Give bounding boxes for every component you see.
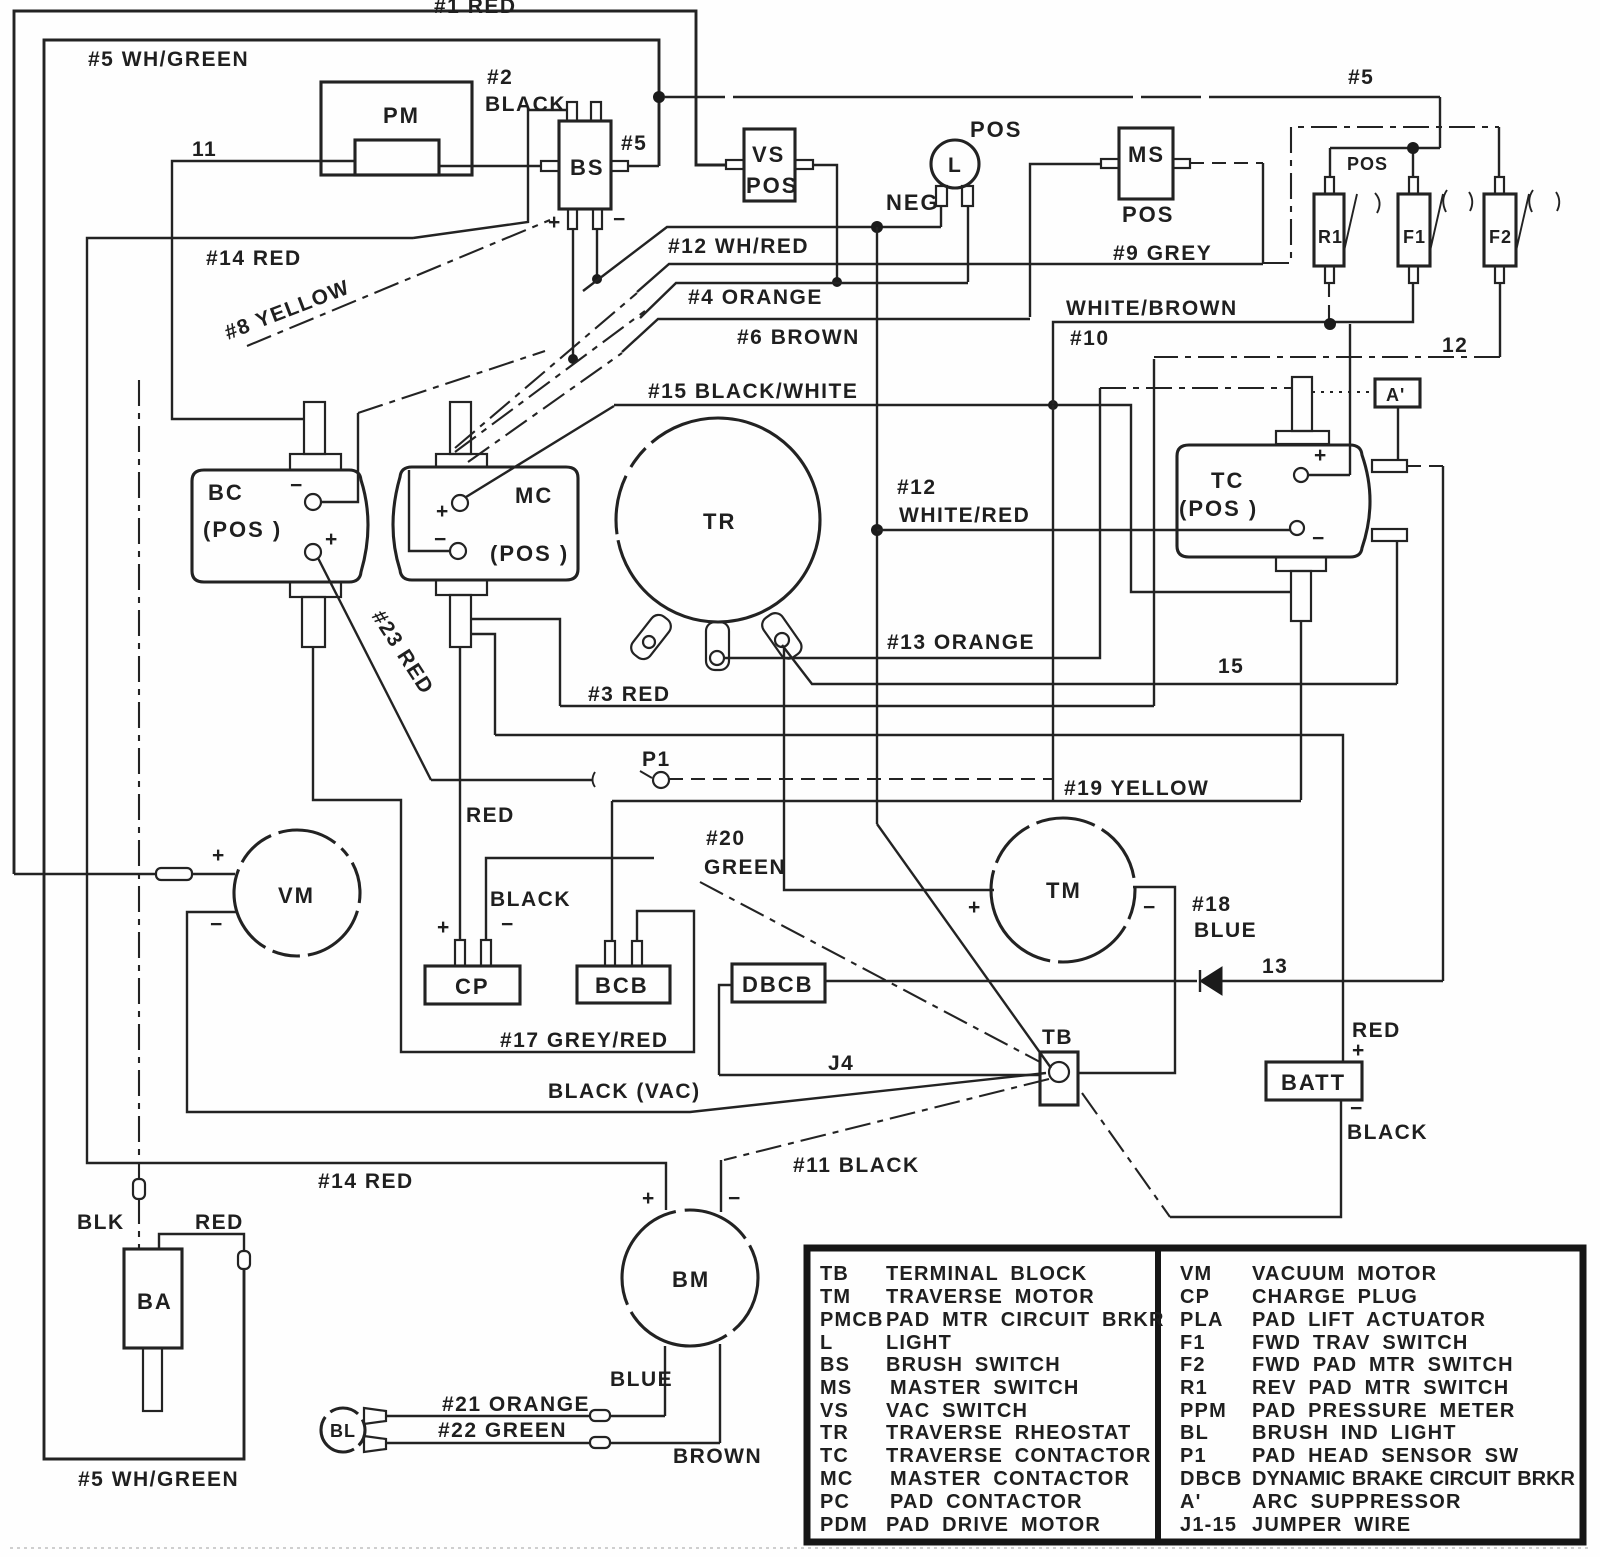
pin BA bottom stub [143, 1348, 162, 1411]
pin BS top-left [567, 102, 577, 121]
wire diode to right riser [1222, 980, 1443, 982]
wire TC right-top pin to long riser [1407, 465, 1443, 467]
svg-text:#18: #18 [1192, 893, 1232, 916]
svg-text:#13 ORANGE: #13 ORANGE [887, 631, 1035, 654]
lug TR right [759, 610, 805, 663]
svg-text:R1: R1 [1180, 1377, 1208, 1399]
pin BS right [611, 161, 628, 171]
switch F1 arc marks [1443, 190, 1472, 212]
wire #13 dash to TC top pin [1100, 387, 1292, 389]
wire MC out lower to batt line [471, 634, 495, 735]
svg-text:ARC SUPPRESSOR: ARC SUPPRESSOR [1252, 1491, 1462, 1513]
wire VS right to #4 orange [813, 165, 837, 282]
wire TM minus to TB [1078, 887, 1175, 1073]
svg-text:VM: VM [278, 883, 315, 908]
wire TC top pin dotted to A' [1312, 391, 1375, 393]
junction dot #15 at P1 riser [1048, 400, 1058, 410]
pin F1 top [1409, 177, 1418, 194]
wire #15 BLACK/WHITE line [614, 405, 1291, 592]
wire A' to TC right top pin [1397, 407, 1399, 460]
wire to BATT plus long line [495, 735, 1343, 1062]
lug BL top [364, 1408, 386, 1424]
junction dot node 12 top [871, 221, 883, 233]
svg-text:R1: R1 [1318, 227, 1343, 247]
svg-text:WHITE/BROWN: WHITE/BROWN [1066, 297, 1238, 320]
svg-text:(POS ): (POS ) [490, 541, 569, 566]
lug TR center [706, 622, 729, 670]
svg-text:J4: J4 [828, 1052, 854, 1075]
svg-text:VACUUM MOTOR: VACUUM MOTOR [1252, 1263, 1437, 1285]
lamp BL body [321, 1408, 365, 1452]
svg-text:TR: TR [703, 509, 736, 534]
wire TB dash to BATT minus elbow [1082, 1093, 1170, 1217]
contactor BC body [192, 470, 368, 582]
wire 15 line TR to TC [782, 645, 1397, 684]
legend left column [820, 1263, 1165, 1536]
pin L neg [936, 186, 947, 206]
wire PM to BS left pin [439, 165, 541, 167]
switch R1 body [1314, 194, 1344, 266]
wire #10 white/brown bracket [1053, 284, 1413, 404]
wire #1 RED outer border [14, 11, 726, 874]
wire #12 WHITE/RED vertical [876, 227, 878, 824]
svg-text:P1: P1 [642, 748, 671, 771]
svg-text:TB: TB [1042, 1026, 1073, 1049]
svg-text:(POS ): (POS ) [1179, 496, 1258, 521]
svg-text:TC: TC [820, 1445, 849, 1467]
svg-text:VM: VM [1180, 1263, 1212, 1285]
pin BS top-right [591, 102, 601, 121]
pin L pos [962, 186, 973, 206]
switch BS brush switch body [559, 121, 611, 209]
svg-text:#22 GREEN: #22 GREEN [438, 1419, 567, 1442]
svg-text:BL: BL [330, 1421, 356, 1441]
switch F2 blade [1516, 194, 1529, 251]
svg-text:−: − [1312, 527, 1326, 550]
svg-text:BLK: BLK [77, 1211, 125, 1234]
box PM inner terminal block [355, 140, 439, 175]
svg-text:L: L [948, 154, 962, 177]
terminal MC plus [452, 495, 468, 511]
switch P1 line from #23 [431, 779, 593, 781]
svg-text:POS: POS [1347, 154, 1388, 174]
wire BM blue down [664, 1346, 666, 1416]
switch VS vac switch body [744, 129, 795, 201]
svg-text:BLACK: BLACK [485, 93, 566, 116]
wire MC minus stub [409, 470, 450, 551]
svg-text:−: − [210, 913, 224, 936]
svg-text:+: + [642, 1187, 656, 1210]
svg-text:BA: BA [137, 1289, 173, 1314]
junction dot at F1 top [1407, 142, 1419, 154]
svg-text:#3 RED: #3 RED [588, 683, 671, 706]
wire #9 GREY line [637, 264, 1263, 292]
svg-text:BLACK: BLACK [1347, 1121, 1428, 1144]
svg-text:+: + [436, 500, 450, 523]
lug TR left [628, 611, 675, 662]
lamp L body [931, 140, 979, 188]
junction VS dot on #4 [832, 277, 842, 287]
wire MC out upper to #3 RED [471, 619, 560, 706]
svg-text:+: + [325, 528, 339, 551]
wire BCB right pin loop to BC bottom [313, 647, 694, 1052]
svg-text:#5: #5 [1348, 66, 1374, 89]
pin BS bottom-minus [593, 209, 602, 229]
wire #5 WH/GREEN second border [44, 40, 659, 1459]
wire TC right-bottom pin down to 15 [1396, 541, 1398, 684]
junction dot R1 on #10 [1324, 318, 1336, 330]
rheostat TR body [616, 418, 820, 622]
pin BCB left [605, 941, 615, 966]
svg-text:+: + [1352, 1039, 1366, 1062]
wire #5 to switches R1 F1 [1330, 97, 1440, 177]
svg-text:REV PAD MTR SWITCH: REV PAD MTR SWITCH [1252, 1377, 1509, 1399]
svg-text:15: 15 [1218, 655, 1244, 678]
svg-text:VS: VS [820, 1400, 849, 1422]
wire TC plus to riser [1308, 474, 1350, 476]
pin MS left [1101, 159, 1119, 168]
svg-text:MASTER CONTACTOR: MASTER CONTACTOR [890, 1468, 1130, 1490]
svg-text:PMCB: PMCB [820, 1309, 884, 1331]
svg-text:CP: CP [1180, 1286, 1210, 1308]
svg-text:BLACK: BLACK [490, 888, 571, 911]
svg-text:#14 RED: #14 RED [318, 1170, 414, 1193]
diode 13 [1200, 967, 1222, 995]
svg-text:#17 GREY/RED: #17 GREY/RED [500, 1029, 669, 1052]
svg-text:−: − [290, 474, 304, 497]
pin MS right [1173, 159, 1190, 168]
svg-text:RED: RED [195, 1211, 244, 1234]
wire #8 YELLOW dashed diagonal [247, 220, 550, 346]
svg-text:BS: BS [820, 1354, 850, 1376]
switch MS master switch body [1119, 128, 1173, 199]
svg-text:TRAVERSE MOTOR: TRAVERSE MOTOR [886, 1286, 1095, 1308]
wire #5 long line to right side [665, 96, 1440, 98]
svg-text:MS: MS [820, 1377, 852, 1399]
svg-text:#12: #12 [897, 476, 937, 499]
pin MC top stack [450, 402, 471, 454]
wire MC plus diagonal to #15 [466, 406, 614, 497]
svg-text:LIGHT: LIGHT [886, 1332, 952, 1354]
wire BC minus to dashed diag [321, 413, 358, 502]
svg-text:#1 RED: #1 RED [434, 0, 517, 18]
svg-text:J1-15: J1-15 [1180, 1514, 1237, 1536]
svg-text:TM: TM [820, 1286, 851, 1308]
svg-text:#15 BLACK/WHITE: #15 BLACK/WHITE [648, 380, 858, 403]
svg-text:FWD PAD MTR SWITCH: FWD PAD MTR SWITCH [1252, 1354, 1514, 1376]
svg-text:#23 RED: #23 RED [367, 606, 438, 699]
switch P1 open contact [593, 771, 653, 787]
svg-text:−: − [434, 528, 448, 551]
fuse on BLK wire [133, 1179, 145, 1199]
svg-text:PPM: PPM [1180, 1400, 1227, 1422]
svg-text:JUMPER WIRE: JUMPER WIRE [1252, 1514, 1411, 1536]
junction BS plus dot [568, 354, 578, 364]
svg-text:PAD MTR CIRCUIT BRKR: PAD MTR CIRCUIT BRKR [886, 1309, 1165, 1331]
svg-text:−: − [501, 913, 515, 936]
battery BA body [124, 1249, 182, 1348]
svg-text:+: + [968, 896, 982, 919]
svg-text:TC: TC [1211, 468, 1244, 493]
wire #23 RED diagonal from BC plus [318, 558, 431, 780]
wire TR right lug vertical to TM plus [784, 647, 994, 890]
svg-text:POS: POS [746, 173, 798, 198]
switch F2 body [1484, 194, 1516, 266]
junction dot #12 at TC minus line [871, 524, 883, 536]
svg-text:#9 GREY: #9 GREY [1113, 242, 1212, 265]
svg-text:PAD HEAD SENSOR SW: PAD HEAD SENSOR SW [1252, 1445, 1519, 1467]
wire BS minus down [596, 229, 598, 279]
svg-text:#4 ORANGE: #4 ORANGE [688, 286, 823, 309]
svg-text:DYNAMIC BRAKE CIRCUIT BRKR: DYNAMIC BRAKE CIRCUIT BRKR [1252, 1468, 1576, 1490]
wire dashed diag MC b [455, 311, 645, 452]
pin R1 bottom [1325, 266, 1334, 283]
wire #11 dash from TB to BM minus [724, 1079, 1049, 1160]
svg-text:A': A' [1386, 385, 1405, 405]
wire long right riser down to diode line [1442, 466, 1444, 981]
scan artifact line at bottom [10, 1547, 1590, 1549]
svg-text:BLACK (VAC): BLACK (VAC) [548, 1080, 701, 1103]
wire dashed diag BC minus to callouts [358, 351, 545, 413]
wire TC bottom pin down to #19 [1300, 621, 1302, 800]
svg-text:MC: MC [515, 483, 553, 508]
svg-text:CP: CP [455, 974, 490, 999]
wire DBCB left pin to J4 [719, 985, 732, 1075]
svg-text:TB: TB [820, 1263, 849, 1285]
svg-text:BLUE: BLUE [1194, 919, 1257, 942]
pin F1 bottom [1409, 266, 1418, 283]
battery BATT body [1266, 1062, 1362, 1100]
terminal TB circle [1049, 1062, 1069, 1082]
svg-text:BL: BL [1180, 1422, 1209, 1444]
wire R1 bottom dash to #10 [1328, 283, 1330, 325]
svg-text:BC: BC [208, 480, 244, 505]
svg-text:PAD CONTACTOR: PAD CONTACTOR [890, 1491, 1083, 1513]
wire VM plus feed from border [14, 873, 235, 875]
svg-text:POS: POS [970, 117, 1022, 142]
svg-text:#20: #20 [706, 827, 746, 850]
legend right column [1180, 1263, 1576, 1536]
breaker DBCB body [732, 964, 825, 1002]
svg-text:BLUE: BLUE [610, 1368, 673, 1391]
svg-text:NEG: NEG [886, 190, 940, 215]
wire #6 BROWN line [622, 319, 1030, 352]
svg-text:RED: RED [466, 804, 515, 827]
wire #20 dashed diagonal to TB [700, 882, 1040, 1062]
wire BS plus down [572, 229, 574, 359]
pin BC bottom stack [290, 582, 341, 597]
wire #10 riser down to P1 line [1052, 405, 1054, 801]
svg-text:BRUSH SWITCH: BRUSH SWITCH [886, 1354, 1061, 1376]
svg-text:MS: MS [1128, 142, 1165, 167]
fuse on #21 [590, 1410, 610, 1421]
pin VS left [726, 160, 744, 169]
svg-text:+: + [548, 211, 562, 234]
svg-text:−: − [1350, 1097, 1364, 1120]
svg-text:12: 12 [1442, 334, 1468, 357]
pin CP plus [455, 940, 465, 966]
svg-text:#2: #2 [487, 66, 513, 89]
pin BCB right [632, 941, 642, 966]
plug CP body [425, 966, 520, 1004]
wire dashed diag MC a [455, 293, 637, 448]
switch F1 body [1398, 194, 1430, 266]
svg-text:−: − [728, 1187, 742, 1210]
switch F1 blade [1430, 194, 1443, 251]
terminal BC plus [305, 544, 321, 560]
contactor MC body [393, 467, 578, 580]
wire BATT minus loop [1170, 1100, 1341, 1217]
legend divider [1155, 1245, 1161, 1542]
wire MS right pin dashed to #9 [1190, 162, 1263, 164]
svg-text:#5: #5 [621, 132, 647, 155]
wire #9 GREY dashed continuation [1263, 127, 1499, 263]
svg-text:TM: TM [1046, 878, 1082, 903]
wire 12 jumper dash-dot [1154, 356, 1500, 358]
wire L pos down to #4 line [967, 206, 969, 282]
wire #22 GREEN [386, 1442, 720, 1444]
pin R1 top [1325, 177, 1334, 194]
svg-text:BRUSH IND LIGHT: BRUSH IND LIGHT [1252, 1422, 1457, 1444]
wire BA red jumper [159, 1234, 244, 1251]
svg-text:PLA: PLA [1180, 1309, 1224, 1331]
wire MS to #9 grey vertical [1262, 163, 1264, 263]
wire DBCB right to diode line [825, 980, 1197, 982]
svg-text:11: 11 [192, 138, 217, 161]
terminal TC plus [1294, 468, 1308, 482]
wire #12 diagonal to TB [877, 824, 1051, 1068]
svg-text:F2: F2 [1180, 1354, 1206, 1376]
wire 11 jumper PM to BC [172, 161, 355, 419]
junction BS minus dot [592, 274, 602, 284]
pin CP minus [481, 940, 491, 966]
wire #19 left end to BCB left pin [611, 801, 613, 941]
svg-text:DBCB: DBCB [742, 972, 814, 997]
svg-text:#11 BLACK: #11 BLACK [793, 1154, 920, 1177]
switch R1 blade [1344, 194, 1357, 251]
wire VM minus to BLACK VAC [187, 912, 1046, 1112]
wire 12 riser to #3 RED [1153, 359, 1155, 706]
svg-text:DBCB: DBCB [1180, 1468, 1243, 1490]
pin TC right top [1372, 460, 1407, 472]
wire #10 to TC plus riser [1349, 324, 1351, 475]
wire BM minus riser [720, 1160, 722, 1212]
wire MC bottom pin to CP plus [459, 647, 461, 940]
lug BL bottom [364, 1436, 386, 1452]
svg-text:13: 13 [1262, 955, 1288, 978]
svg-text:(POS ): (POS ) [203, 517, 282, 542]
svg-text:#5 WH/GREEN: #5 WH/GREEN [88, 48, 249, 71]
breaker BCB body [577, 966, 670, 1003]
svg-text:MASTER SWITCH: MASTER SWITCH [890, 1377, 1079, 1399]
switch F2 arc marks [1529, 190, 1559, 212]
svg-text:F1: F1 [1403, 227, 1426, 247]
svg-text:BATT: BATT [1281, 1070, 1346, 1095]
svg-text:−: − [1143, 896, 1157, 919]
wire BS right pin to #5 border [628, 165, 659, 167]
svg-text:+: + [212, 844, 226, 867]
svg-text:PDM: PDM [820, 1514, 868, 1536]
wire P1 dash to riser [669, 778, 1053, 780]
svg-text:F1: F1 [1180, 1332, 1206, 1354]
pin BS left [541, 161, 559, 171]
terminal TC minus [1290, 521, 1304, 535]
contactor TC body [1177, 445, 1370, 557]
svg-text:P1: P1 [1180, 1445, 1207, 1467]
svg-text:MC: MC [820, 1468, 854, 1490]
svg-text:+: + [437, 916, 451, 939]
svg-text:A': A' [1180, 1491, 1202, 1513]
junction dot node 5 [653, 91, 665, 103]
wire BM brown down [719, 1344, 721, 1443]
wire BLK dash-dot to BA [138, 380, 140, 1249]
pin F2 top [1495, 177, 1504, 194]
box PM pad motor [321, 82, 472, 175]
svg-text:WHITE/RED: WHITE/RED [899, 504, 1030, 527]
pin VS right [795, 160, 813, 169]
svg-text:TR: TR [820, 1422, 849, 1444]
wire #3 RED line [560, 705, 1154, 707]
svg-text:PC: PC [820, 1491, 850, 1513]
wire MS left pin to #6 brown [1030, 164, 1101, 317]
fuse on #22 [590, 1437, 610, 1448]
pin BC top stack [304, 402, 325, 454]
wire BS top pin jog to #14 [413, 110, 566, 238]
svg-text:PAD PRESSURE METER: PAD PRESSURE METER [1252, 1400, 1516, 1422]
svg-text:−: − [613, 208, 627, 231]
wire J4 to TB [719, 1074, 1040, 1076]
terminal MC minus [450, 543, 466, 559]
svg-text:BS: BS [570, 155, 605, 180]
svg-text:PAD DRIVE MOTOR: PAD DRIVE MOTOR [886, 1514, 1101, 1536]
svg-text:BCB: BCB [595, 973, 649, 998]
motor BM body [622, 1210, 758, 1346]
svg-text:#12 WH/RED: #12 WH/RED [668, 235, 809, 258]
pin BS bottom-plus [568, 209, 577, 229]
wire #4 ORANGE line [640, 283, 968, 318]
legend box border [807, 1248, 1583, 1542]
svg-text:BM: BM [672, 1267, 710, 1292]
svg-text:#10: #10 [1070, 327, 1110, 350]
svg-text:TRAVERSE RHEOSTAT: TRAVERSE RHEOSTAT [886, 1422, 1131, 1444]
fuse on BA red wire [238, 1251, 250, 1269]
svg-text:TERMINAL BLOCK: TERMINAL BLOCK [886, 1263, 1087, 1285]
motor TM body [991, 818, 1135, 962]
pin TC bottom stack [1276, 557, 1326, 571]
svg-text:CHARGE PLUG: CHARGE PLUG [1252, 1286, 1418, 1308]
wire #14 RED left vertical [87, 238, 666, 1210]
svg-text:PM: PM [383, 103, 420, 128]
fuse on VM plus wire [156, 868, 192, 880]
wire F2 top feed [1498, 127, 1500, 177]
box A' arc suppressor [1375, 379, 1420, 407]
svg-text:#19 YELLOW: #19 YELLOW [1064, 777, 1209, 800]
svg-text:GREEN: GREEN [704, 856, 786, 879]
svg-text:FWD TRAV SWITCH: FWD TRAV SWITCH [1252, 1332, 1469, 1354]
svg-text:PAD LIFT ACTUATOR: PAD LIFT ACTUATOR [1252, 1309, 1486, 1331]
svg-text:VS: VS [752, 142, 785, 167]
wire #19 YELLOW line [612, 800, 1301, 802]
wire L neg to #12 line [940, 206, 942, 227]
svg-text:F2: F2 [1489, 227, 1512, 247]
svg-text:#6 BROWN: #6 BROWN [737, 326, 860, 349]
svg-text:#14 RED: #14 RED [206, 247, 302, 270]
svg-text:TRAVERSE CONTACTOR: TRAVERSE CONTACTOR [886, 1445, 1152, 1467]
svg-text:#5 WH/GREEN: #5 WH/GREEN [78, 1468, 239, 1491]
svg-text:+: + [1314, 444, 1328, 467]
switch R1 arc mark [1375, 193, 1380, 213]
wire #21 ORANGE [386, 1415, 665, 1417]
